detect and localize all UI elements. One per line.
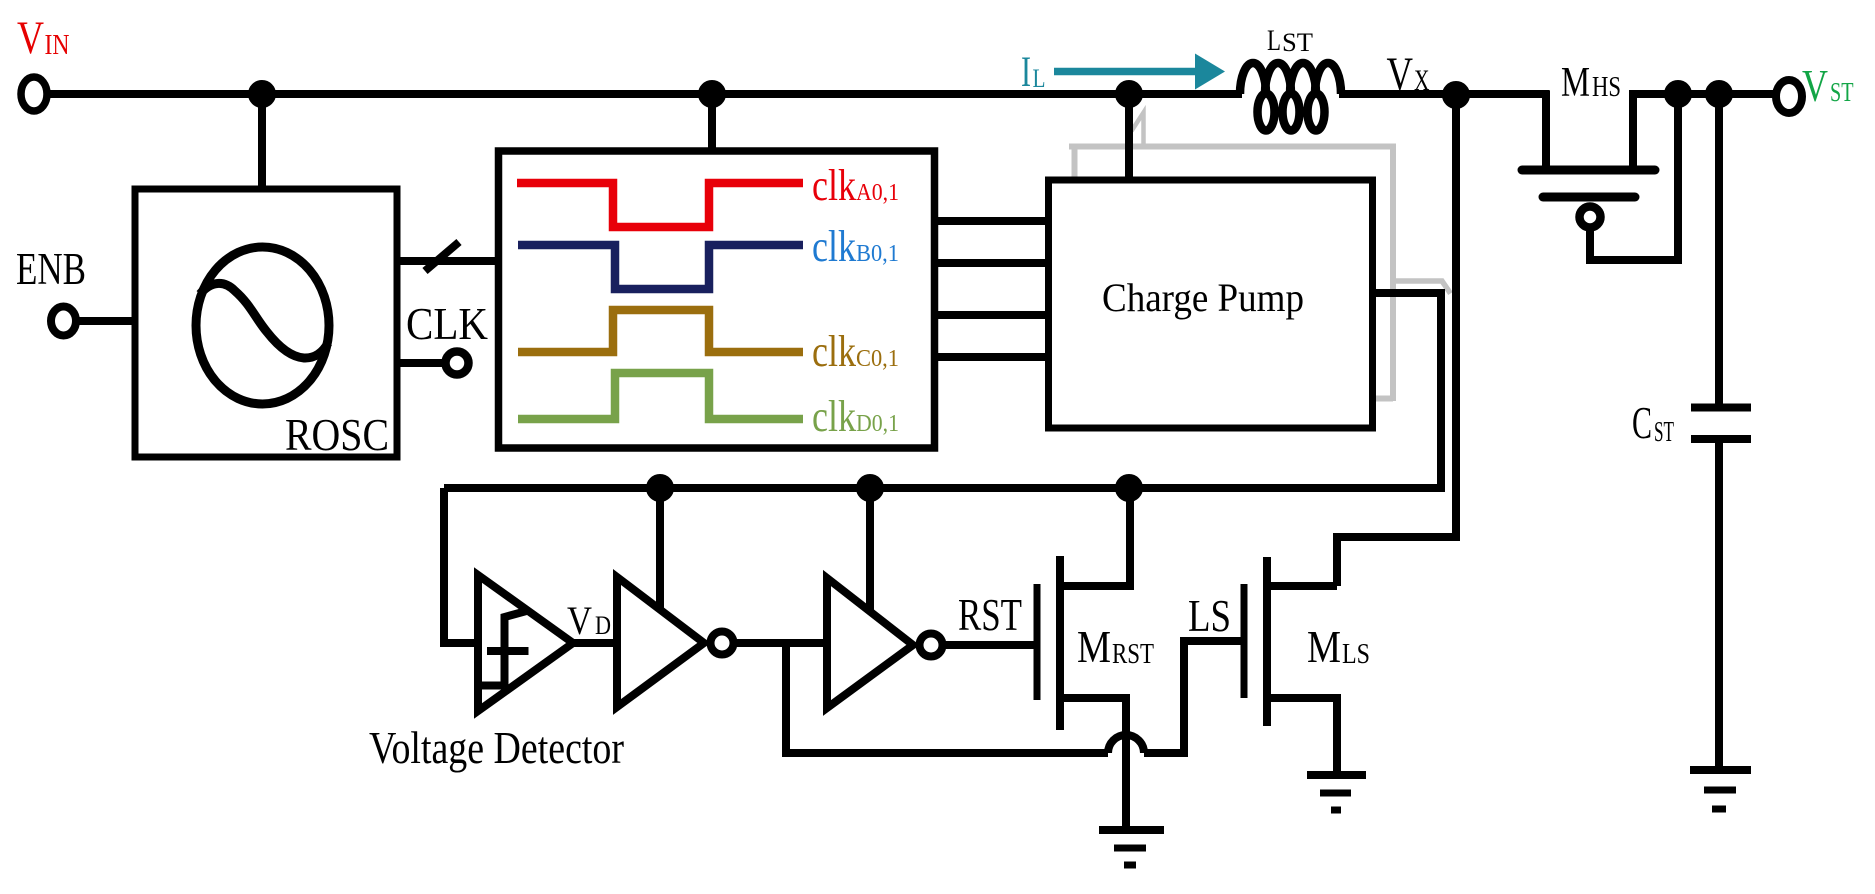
wire VX to MLS drain bbox=[1337, 95, 1456, 586]
wire RST bbox=[942, 641, 1034, 649]
MRST label bbox=[1077, 621, 1154, 672]
node junction ROSC bbox=[252, 84, 272, 104]
clkC label bbox=[812, 327, 899, 376]
wire to clock box bbox=[708, 94, 716, 153]
MLS label bbox=[1307, 621, 1370, 672]
wire detector to inverter1 bbox=[573, 639, 617, 647]
clkA label bbox=[812, 161, 899, 210]
wires clock box to charge pump bbox=[933, 217, 1045, 225]
node IL label bbox=[1021, 49, 1046, 96]
svg-text:C0,1: C0,1 bbox=[856, 346, 899, 372]
ground CST bbox=[1690, 766, 1751, 774]
inverter U1 bbox=[617, 577, 704, 707]
svg-text:V: V bbox=[1387, 48, 1414, 101]
svg-text:ST: ST bbox=[1830, 77, 1854, 107]
LST label bbox=[1267, 24, 1313, 57]
node VST label bbox=[1802, 61, 1854, 111]
svg-text:clk: clk bbox=[812, 392, 856, 441]
gray shadow of charge pump box bbox=[1069, 113, 1451, 402]
wire CLK bbox=[397, 359, 444, 367]
inductor LST bbox=[1240, 63, 1341, 131]
wire bus to detector input bbox=[444, 488, 478, 643]
node junction charge pump bbox=[1119, 84, 1139, 104]
svg-text:M: M bbox=[1077, 621, 1111, 672]
svg-text:V: V bbox=[1802, 61, 1828, 111]
VIN terminal bbox=[21, 77, 47, 111]
svg-text:V: V bbox=[567, 598, 592, 643]
wire ENB to ROSC bbox=[76, 317, 137, 325]
wire to LS node bbox=[786, 643, 1108, 753]
node junction MHS gate bbox=[1668, 84, 1688, 104]
node VD label bbox=[567, 598, 611, 643]
wire top rail bbox=[48, 90, 1243, 98]
wire ROSC to clock box (CLK bus) bbox=[397, 257, 499, 265]
CLK terminal bbox=[446, 352, 469, 375]
transistor MRST bbox=[1034, 584, 1041, 700]
node VX label bbox=[1387, 48, 1430, 101]
capacitor CST bbox=[1715, 94, 1723, 407]
transistor MLS bbox=[1241, 584, 1248, 698]
svg-text:clk: clk bbox=[812, 161, 856, 210]
wire bus to inverter1 bbox=[656, 488, 664, 612]
voltage detector comparator bbox=[478, 575, 573, 711]
svg-text:D0,1: D0,1 bbox=[856, 411, 899, 437]
wire charge pump output bbox=[1375, 293, 1441, 492]
svg-text:Charge Pump: Charge Pump bbox=[1102, 275, 1304, 320]
ENB terminal bbox=[51, 307, 76, 336]
node VST terminal bbox=[1776, 80, 1802, 113]
svg-text:X: X bbox=[1414, 64, 1430, 97]
svg-text:CLK: CLK bbox=[406, 298, 488, 349]
wire inverter1 to inverter2 bbox=[733, 639, 827, 647]
svg-text:LS: LS bbox=[1342, 638, 1370, 670]
clkA waveform bbox=[517, 183, 803, 227]
charge pump box bbox=[1049, 180, 1373, 428]
clkD label bbox=[812, 392, 899, 441]
svg-text:M: M bbox=[1561, 60, 1590, 106]
wire hop bbox=[1108, 735, 1144, 753]
svg-text:ENB: ENB bbox=[16, 244, 86, 294]
clkC waveform bbox=[518, 310, 803, 352]
node junction bus-inv1 bbox=[650, 478, 670, 498]
inverter U2 bbox=[827, 578, 913, 708]
svg-text:ST: ST bbox=[1654, 416, 1674, 448]
wire feedback bus bbox=[444, 484, 1441, 492]
svg-text:HS: HS bbox=[1592, 72, 1621, 103]
hysteresis symbol bbox=[482, 611, 529, 687]
clkD waveform bbox=[518, 373, 803, 419]
svg-text:I: I bbox=[1021, 49, 1031, 96]
svg-text:IN: IN bbox=[45, 29, 70, 61]
svg-text:ST: ST bbox=[1282, 28, 1313, 57]
ROSC box bbox=[135, 189, 397, 457]
svg-text:L: L bbox=[1267, 24, 1281, 57]
IL current arrow bbox=[1054, 54, 1225, 90]
CST label bbox=[1632, 397, 1674, 448]
node junction bus-MRST bbox=[1119, 478, 1139, 498]
svg-text:clk: clk bbox=[812, 222, 856, 271]
svg-text:Voltage Detector: Voltage Detector bbox=[369, 722, 624, 773]
node VX junction bbox=[1446, 85, 1466, 105]
clock waveform box bbox=[499, 151, 935, 448]
svg-text:clk: clk bbox=[812, 327, 856, 376]
svg-text:LS: LS bbox=[1188, 591, 1231, 641]
node junction clock box bbox=[702, 84, 722, 104]
clkB label bbox=[812, 222, 899, 271]
svg-text:D: D bbox=[595, 611, 611, 640]
wire bus to inverter2 bbox=[866, 488, 874, 616]
transistor MHS bbox=[1542, 91, 1550, 167]
wire to charge pump bbox=[1125, 94, 1133, 182]
MHS label bbox=[1561, 60, 1621, 106]
node VIN label bbox=[17, 12, 70, 64]
svg-text:B0,1: B0,1 bbox=[856, 241, 899, 267]
wire to ROSC bbox=[258, 94, 266, 192]
svg-text:ROSC: ROSC bbox=[285, 409, 389, 460]
clkB waveform bbox=[518, 245, 803, 289]
svg-text:RST: RST bbox=[1112, 638, 1154, 670]
node junction bus-inv2 bbox=[860, 478, 880, 498]
svg-text:RST: RST bbox=[958, 590, 1022, 640]
svg-text:V: V bbox=[17, 12, 44, 64]
ground MLS bbox=[1307, 771, 1366, 779]
ROSC oscillator symbol bbox=[196, 247, 329, 404]
svg-text:L: L bbox=[1033, 64, 1046, 93]
ground MRST bbox=[1099, 826, 1164, 834]
bus slash bbox=[425, 242, 459, 271]
node junction CST bbox=[1709, 84, 1729, 104]
svg-text:M: M bbox=[1307, 621, 1341, 672]
svg-text:C: C bbox=[1632, 397, 1652, 448]
svg-text:A0,1: A0,1 bbox=[856, 180, 899, 206]
